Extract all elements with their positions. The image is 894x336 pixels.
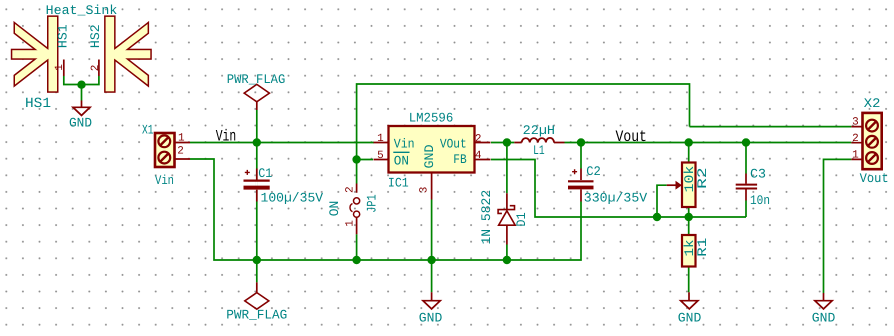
svg-text:GND: GND [678, 311, 702, 326]
svg-text:Vin: Vin [155, 173, 174, 188]
svg-text:HS2: HS2 [88, 24, 103, 48]
svg-text:HS1: HS1 [25, 96, 51, 112]
svg-text:ON: ON [394, 153, 409, 168]
svg-text:2: 2 [90, 65, 102, 72]
svg-text:5: 5 [377, 150, 384, 162]
svg-text:ON: ON [327, 201, 342, 217]
svg-text:22µH: 22µH [523, 123, 555, 138]
svg-text:4: 4 [475, 150, 482, 162]
svg-text:PWR_FLAG: PWR_FLAG [226, 307, 287, 322]
svg-text:2: 2 [475, 134, 482, 146]
svg-text:C3: C3 [750, 167, 766, 182]
svg-text:GND: GND [812, 311, 836, 326]
svg-text:2: 2 [852, 133, 859, 145]
svg-text:2: 2 [177, 145, 184, 157]
svg-text:X2: X2 [864, 96, 881, 111]
svg-text:C1: C1 [258, 166, 272, 181]
svg-text:PWR_FLAG: PWR_FLAG [227, 72, 286, 87]
svg-text:Vout: Vout [860, 171, 889, 186]
svg-text:JP1: JP1 [364, 194, 379, 212]
svg-text:C2: C2 [586, 164, 601, 179]
svg-text:Vin: Vin [394, 137, 415, 152]
svg-text:R1: R1 [695, 238, 710, 257]
svg-text:D1: D1 [514, 212, 529, 226]
svg-text:GND: GND [69, 115, 92, 130]
svg-text:Vout: Vout [616, 128, 647, 146]
svg-text:3: 3 [852, 116, 859, 128]
svg-text:1: 1 [345, 220, 357, 227]
svg-text:IC1: IC1 [388, 176, 409, 191]
svg-text:Vin: Vin [216, 128, 237, 146]
svg-text:1: 1 [852, 149, 859, 161]
svg-text:330µ/35V: 330µ/35V [584, 190, 648, 205]
svg-text:HS1: HS1 [56, 24, 71, 48]
svg-text:1: 1 [54, 64, 66, 71]
svg-text:LM2596: LM2596 [409, 110, 454, 125]
svg-text:100µ/35V: 100µ/35V [261, 190, 324, 205]
svg-text:FB: FB [453, 152, 467, 167]
svg-text:X1: X1 [142, 122, 154, 137]
svg-text:1: 1 [178, 133, 185, 145]
svg-text:GND: GND [422, 144, 437, 168]
svg-text:L1: L1 [533, 143, 545, 158]
svg-text:R2: R2 [695, 168, 710, 189]
svg-text:1: 1 [377, 133, 384, 145]
svg-text:3: 3 [419, 187, 431, 194]
svg-text:10n: 10n [750, 193, 770, 208]
svg-text:GND: GND [419, 311, 443, 326]
svg-text:1N 5822: 1N 5822 [479, 190, 494, 245]
svg-text:2: 2 [345, 186, 357, 193]
svg-text:VOut: VOut [440, 137, 467, 152]
svg-text:Heat_Sink: Heat_Sink [46, 3, 118, 18]
